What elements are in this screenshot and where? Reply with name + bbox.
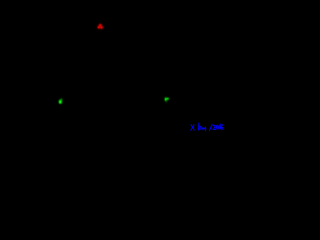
- blue signature text: [191, 123, 223, 131]
- digit 0: [216, 125, 218, 129]
- digit 1: [219, 125, 222, 130]
- letter with ascender loop: [198, 123, 200, 130]
- digit 2: [213, 125, 216, 129]
- green blob right: [165, 97, 169, 102]
- y descender: [204, 127, 206, 131]
- digit 6: [221, 125, 223, 130]
- slash: [210, 124, 213, 130]
- letter X: [191, 125, 194, 130]
- green blob left: [59, 98, 63, 103]
- red light cluster: [97, 24, 103, 29]
- m humps: [201, 128, 205, 130]
